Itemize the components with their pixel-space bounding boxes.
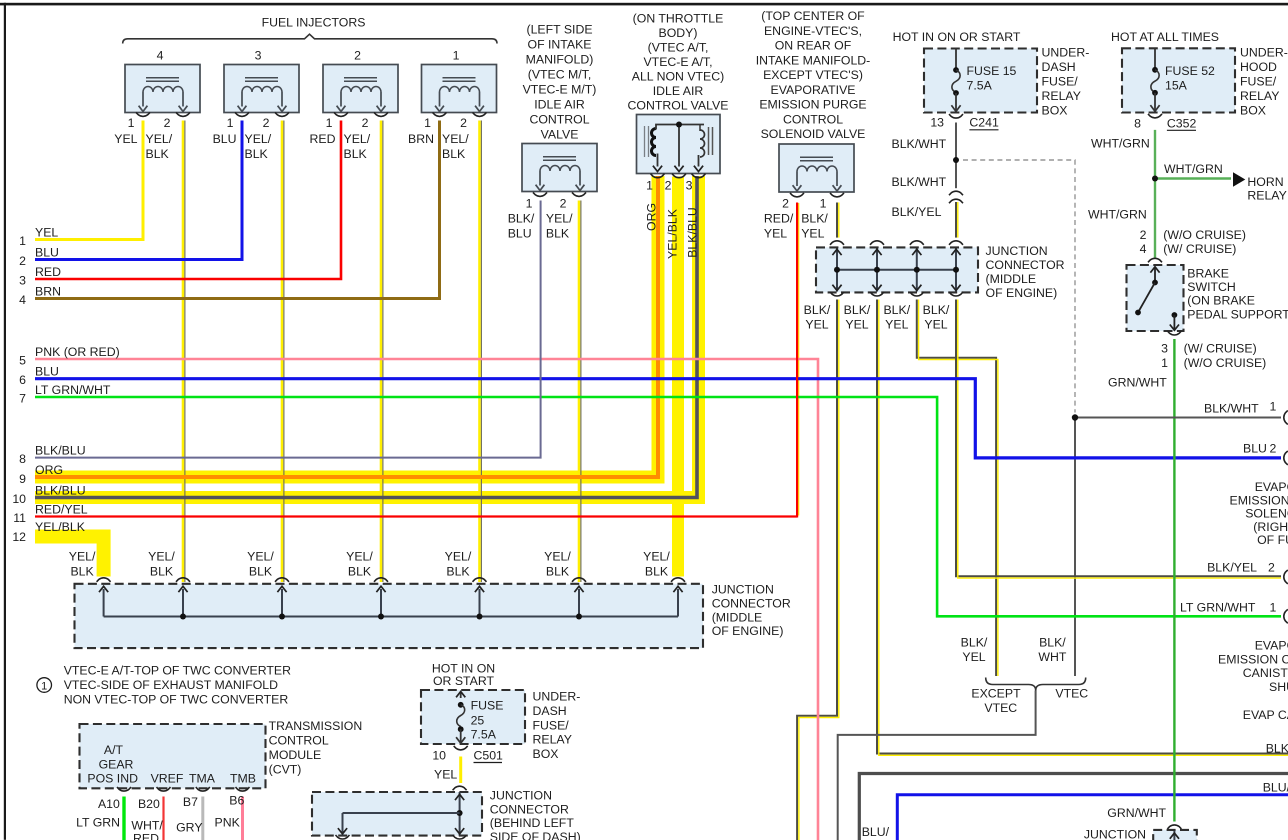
svg-text:NON VTEC-TOP OF TWC CONVERTER: NON VTEC-TOP OF TWC CONVERTER xyxy=(64,693,289,707)
svg-text:EXCEPT VTEC'S): EXCEPT VTEC'S) xyxy=(763,68,863,82)
svg-text:(W/ CRUISE): (W/ CRUISE) xyxy=(1163,242,1236,256)
svg-text:C501: C501 xyxy=(474,749,504,763)
svg-text:C241: C241 xyxy=(969,116,999,130)
svg-text:LT GRN/WHT: LT GRN/WHT xyxy=(35,383,111,397)
svg-text:YEL/: YEL/ xyxy=(146,132,173,146)
svg-text:(VTEC M/T,: (VTEC M/T, xyxy=(528,68,592,82)
svg-text:RELAY: RELAY xyxy=(1247,189,1286,203)
svg-text:YEL/BLK: YEL/BLK xyxy=(666,208,680,259)
svg-text:2: 2 xyxy=(263,116,270,130)
svg-text:DASH: DASH xyxy=(533,704,567,718)
svg-text:IDLE AIR: IDLE AIR xyxy=(534,98,585,112)
svg-text:FUSE 52: FUSE 52 xyxy=(1165,64,1215,78)
svg-text:JUNCTION: JUNCTION xyxy=(490,789,552,803)
svg-text:1: 1 xyxy=(41,680,47,692)
svg-text:EMISSION PURGE: EMISSION PURGE xyxy=(759,98,866,112)
svg-text:BRN: BRN xyxy=(35,284,61,298)
svg-text:7.5A: 7.5A xyxy=(471,728,497,742)
svg-text:BLK: BLK xyxy=(249,565,273,579)
svg-text:A/T: A/T xyxy=(104,743,124,757)
svg-text:POS IND: POS IND xyxy=(87,772,138,786)
svg-text:PEDAL SUPPORT): PEDAL SUPPORT) xyxy=(1187,307,1288,321)
svg-text:VTEC-E M/T): VTEC-E M/T) xyxy=(523,83,597,97)
svg-text:(RIGHT SID: (RIGHT SID xyxy=(1253,520,1288,534)
svg-text:WHT/GRN: WHT/GRN xyxy=(1164,162,1223,176)
svg-text:RED/: RED/ xyxy=(764,212,794,226)
svg-text:4: 4 xyxy=(1140,242,1147,256)
svg-text:1: 1 xyxy=(453,49,460,63)
svg-text:1: 1 xyxy=(128,116,135,130)
svg-text:FUSE: FUSE xyxy=(471,699,504,713)
svg-text:(MIDDLE: (MIDDLE xyxy=(712,610,763,624)
svg-text:11: 11 xyxy=(13,511,26,525)
svg-text:YEL/: YEL/ xyxy=(546,212,573,226)
svg-text:VTEC-E A/T,: VTEC-E A/T, xyxy=(643,55,712,69)
svg-text:BRN: BRN xyxy=(408,132,434,146)
svg-text:10: 10 xyxy=(12,492,26,506)
svg-text:(ON BRAKE: (ON BRAKE xyxy=(1187,294,1255,308)
svg-text:UNDER-: UNDER- xyxy=(533,690,581,704)
svg-text:13: 13 xyxy=(930,116,944,130)
svg-text:10: 10 xyxy=(432,749,446,763)
svg-text:BLU: BLU xyxy=(508,227,532,241)
svg-text:(BEHIND LEFT: (BEHIND LEFT xyxy=(490,816,575,830)
svg-text:YEL/: YEL/ xyxy=(148,550,175,564)
svg-text:1: 1 xyxy=(526,197,533,211)
svg-text:4: 4 xyxy=(19,293,26,307)
svg-text:EMISSION CONT: EMISSION CONT xyxy=(1218,652,1288,666)
svg-text:B7: B7 xyxy=(183,795,198,809)
svg-text:EVAPORATI: EVAPORATI xyxy=(1255,639,1288,653)
svg-text:WHT/GRN: WHT/GRN xyxy=(1091,137,1150,151)
svg-text:(W/O CRUISE): (W/O CRUISE) xyxy=(1184,356,1267,370)
svg-text:UNDER-: UNDER- xyxy=(1042,46,1090,60)
svg-text:SOLENOID V: SOLENOID V xyxy=(1245,507,1288,521)
svg-text:OF FUEL T: OF FUEL T xyxy=(1257,533,1288,547)
svg-text:4: 4 xyxy=(157,49,164,63)
svg-text:2: 2 xyxy=(782,197,789,211)
svg-text:CONNECTOR: CONNECTOR xyxy=(490,802,569,816)
svg-text:VTEC: VTEC xyxy=(1055,687,1088,701)
svg-text:EMISSION PUR: EMISSION PUR xyxy=(1230,493,1288,507)
svg-text:OR START: OR START xyxy=(433,674,495,688)
svg-text:BLK/YEL: BLK/YEL xyxy=(1207,561,1257,575)
svg-text:GRN/WHT: GRN/WHT xyxy=(1108,376,1167,390)
svg-text:YEL: YEL xyxy=(801,227,824,241)
svg-text:BLU: BLU xyxy=(1243,441,1267,455)
svg-text:3: 3 xyxy=(686,178,693,192)
svg-text:YEL/: YEL/ xyxy=(245,132,272,146)
svg-text:CONTROL: CONTROL xyxy=(269,734,329,748)
svg-text:BLK/YEL: BLK/YEL xyxy=(892,205,942,219)
svg-text:INTAKE MANIFOLD-: INTAKE MANIFOLD- xyxy=(756,53,871,67)
svg-text:VALVE: VALVE xyxy=(541,128,579,142)
svg-text:YEL/: YEL/ xyxy=(643,550,670,564)
svg-text:RED/YEL: RED/YEL xyxy=(35,502,88,516)
svg-text:BRAKE: BRAKE xyxy=(1187,267,1229,281)
svg-text:1: 1 xyxy=(1270,400,1277,414)
svg-text:YEL/: YEL/ xyxy=(442,132,469,146)
svg-text:CONNECTOR: CONNECTOR xyxy=(712,596,791,610)
svg-text:BLU: BLU xyxy=(35,245,59,259)
svg-text:MODULE: MODULE xyxy=(269,748,322,762)
svg-text:VTEC-E A/T-TOP OF TWC CONVERTE: VTEC-E A/T-TOP OF TWC CONVERTER xyxy=(64,664,291,678)
svg-text:B20: B20 xyxy=(138,797,160,811)
svg-text:BLK/BLU: BLK/BLU xyxy=(35,483,86,497)
svg-text:ORG: ORG xyxy=(35,463,63,477)
svg-text:HOOD: HOOD xyxy=(1240,60,1277,74)
svg-text:WHT/: WHT/ xyxy=(131,819,163,833)
svg-text:YEL: YEL xyxy=(35,225,58,239)
svg-text:FUSE/: FUSE/ xyxy=(533,718,570,732)
svg-text:LT GRN/WHT: LT GRN/WHT xyxy=(1180,601,1256,615)
svg-text:BLU: BLU xyxy=(35,365,59,379)
svg-text:BOX: BOX xyxy=(1240,103,1266,117)
svg-text:2: 2 xyxy=(665,178,672,192)
svg-text:JUNCTION: JUNCTION xyxy=(712,583,774,597)
svg-text:BLK: BLK xyxy=(645,565,669,579)
svg-text:BLK/YEL: BLK/YEL xyxy=(1266,742,1288,756)
svg-text:(W/O CRUISE): (W/O CRUISE) xyxy=(1163,228,1246,242)
svg-text:YEL: YEL xyxy=(764,227,787,241)
svg-text:BLK: BLK xyxy=(442,147,466,161)
svg-text:EVAPORATIVE: EVAPORATIVE xyxy=(1255,480,1288,494)
svg-text:8: 8 xyxy=(1134,117,1141,131)
svg-text:15A: 15A xyxy=(1165,79,1188,93)
svg-text:2: 2 xyxy=(362,116,369,130)
svg-text:FUSE/: FUSE/ xyxy=(1240,75,1277,89)
svg-text:ORG: ORG xyxy=(645,203,659,231)
svg-text:BLK/: BLK/ xyxy=(508,212,535,226)
svg-text:BLK/WHT: BLK/WHT xyxy=(1204,401,1259,415)
svg-text:1: 1 xyxy=(1161,356,1168,370)
svg-text:BLK: BLK xyxy=(348,565,372,579)
svg-text:3: 3 xyxy=(255,49,262,63)
svg-text:6: 6 xyxy=(19,373,26,387)
svg-text:2: 2 xyxy=(1140,228,1147,242)
svg-text:7: 7 xyxy=(19,392,26,406)
svg-text:3: 3 xyxy=(19,274,26,288)
svg-text:FUSE 15: FUSE 15 xyxy=(967,64,1017,78)
svg-text:PNK (OR RED): PNK (OR RED) xyxy=(35,345,120,359)
svg-text:7.5A: 7.5A xyxy=(967,79,993,93)
svg-text:2: 2 xyxy=(19,254,26,268)
svg-text:A10: A10 xyxy=(98,797,120,811)
svg-text:3: 3 xyxy=(1161,342,1168,356)
svg-text:RED: RED xyxy=(310,132,336,146)
svg-text:(ON THROTTLE: (ON THROTTLE xyxy=(633,12,724,26)
svg-text:BLU: BLU xyxy=(213,132,237,146)
svg-text:OF ENGINE): OF ENGINE) xyxy=(986,286,1058,300)
svg-text:CONTROL VALVE: CONTROL VALVE xyxy=(628,99,729,113)
svg-text:1: 1 xyxy=(227,116,234,130)
svg-text:25: 25 xyxy=(471,714,485,728)
svg-text:BLK: BLK xyxy=(546,227,570,241)
svg-text:YEL: YEL xyxy=(845,318,868,332)
svg-text:12: 12 xyxy=(12,530,26,544)
svg-text:1: 1 xyxy=(19,234,26,248)
svg-text:YEL/: YEL/ xyxy=(69,550,96,564)
svg-text:IDLE AIR: IDLE AIR xyxy=(653,84,704,98)
svg-text:OF ENGINE): OF ENGINE) xyxy=(712,624,784,638)
svg-text:LT GRN: LT GRN xyxy=(76,815,120,829)
svg-text:8: 8 xyxy=(19,452,26,466)
svg-text:DASH: DASH xyxy=(1042,60,1076,74)
svg-text:(CVT): (CVT) xyxy=(269,763,302,777)
svg-text:BLK/: BLK/ xyxy=(844,303,871,317)
svg-text:BLU/WHT: BLU/WHT xyxy=(1263,780,1288,794)
svg-text:YEL/: YEL/ xyxy=(544,550,571,564)
svg-text:2: 2 xyxy=(164,116,171,130)
svg-text:BLK/BLU: BLK/BLU xyxy=(35,443,86,457)
svg-text:WHT: WHT xyxy=(1038,650,1066,664)
svg-text:(VTEC A/T,: (VTEC A/T, xyxy=(648,41,709,55)
svg-text:YEL/: YEL/ xyxy=(445,550,472,564)
svg-text:UNDER-: UNDER- xyxy=(1240,46,1288,60)
svg-text:BLK: BLK xyxy=(146,147,170,161)
svg-text:1: 1 xyxy=(646,178,653,192)
svg-text:C352: C352 xyxy=(1167,117,1197,131)
svg-text:(LEFT SIDE: (LEFT SIDE xyxy=(526,23,592,37)
svg-text:SOLENOID VALVE: SOLENOID VALVE xyxy=(761,127,866,141)
svg-text:BLK: BLK xyxy=(150,565,174,579)
svg-text:BLK/: BLK/ xyxy=(804,303,831,317)
svg-text:GRY: GRY xyxy=(176,820,202,834)
svg-text:2: 2 xyxy=(560,197,567,211)
svg-text:ENGINE-VTEC'S,: ENGINE-VTEC'S, xyxy=(764,24,862,38)
svg-text:FUEL INJECTORS: FUEL INJECTORS xyxy=(262,16,366,30)
svg-text:JUNCTION: JUNCTION xyxy=(986,244,1048,258)
svg-text:1: 1 xyxy=(820,197,827,211)
svg-text:VREF: VREF xyxy=(151,772,184,786)
svg-text:(MIDDLE: (MIDDLE xyxy=(986,272,1037,286)
svg-text:BLK: BLK xyxy=(446,565,470,579)
svg-text:BLK/: BLK/ xyxy=(961,636,988,650)
svg-text:VTEC-SIDE OF EXHAUST MANIFOLD: VTEC-SIDE OF EXHAUST MANIFOLD xyxy=(64,678,278,692)
svg-text:B6: B6 xyxy=(229,793,244,807)
svg-text:TMB: TMB xyxy=(230,772,256,786)
svg-text:2: 2 xyxy=(460,116,467,130)
svg-text:RELAY: RELAY xyxy=(533,733,572,747)
svg-text:YEL: YEL xyxy=(962,650,985,664)
svg-text:RELAY: RELAY xyxy=(1240,89,1279,103)
svg-text:1: 1 xyxy=(326,116,333,130)
svg-text:YEL/: YEL/ xyxy=(344,132,371,146)
svg-text:2: 2 xyxy=(354,49,361,63)
svg-text:YEL: YEL xyxy=(924,318,947,332)
svg-text:ON REAR OF: ON REAR OF xyxy=(775,39,852,53)
svg-text:FUSE/: FUSE/ xyxy=(1042,75,1079,89)
svg-text:BLK/WHT: BLK/WHT xyxy=(892,175,947,189)
svg-text:SHUT V: SHUT V xyxy=(1269,680,1288,694)
svg-text:TMA: TMA xyxy=(189,772,216,786)
svg-text:9: 9 xyxy=(19,472,26,486)
svg-text:MANIFOLD): MANIFOLD) xyxy=(526,53,594,67)
svg-text:YEL: YEL xyxy=(114,132,137,146)
svg-text:GEAR: GEAR xyxy=(99,758,134,772)
svg-text:(TOP CENTER OF: (TOP CENTER OF xyxy=(761,9,865,23)
svg-text:EXCEPT: EXCEPT xyxy=(971,687,1021,701)
svg-text:1: 1 xyxy=(424,116,431,130)
svg-text:CONTROL: CONTROL xyxy=(529,113,589,127)
svg-text:EVAPORATIVE: EVAPORATIVE xyxy=(771,83,856,97)
svg-text:VTEC: VTEC xyxy=(984,701,1017,715)
svg-text:SIDE OF DASH): SIDE OF DASH) xyxy=(490,830,581,840)
svg-text:ALL NON VTEC): ALL NON VTEC) xyxy=(632,70,724,84)
svg-text:GRN/WHT: GRN/WHT xyxy=(1107,806,1166,820)
svg-text:SWITCH: SWITCH xyxy=(1187,280,1236,294)
svg-text:1: 1 xyxy=(1270,601,1277,615)
svg-text:5: 5 xyxy=(19,354,26,368)
svg-text:BLK/WHT: BLK/WHT xyxy=(892,137,947,151)
svg-text:YEL: YEL xyxy=(805,318,828,332)
svg-text:BLK: BLK xyxy=(344,147,368,161)
svg-text:BLK: BLK xyxy=(245,147,269,161)
svg-text:BLK: BLK xyxy=(546,565,570,579)
svg-text:CANISTER: CANISTER xyxy=(1243,666,1288,680)
svg-text:PNK: PNK xyxy=(215,815,241,829)
svg-text:HOT IN ON OR START: HOT IN ON OR START xyxy=(893,30,1021,44)
svg-text:BOX: BOX xyxy=(533,747,559,761)
svg-text:CONNECTOR: CONNECTOR xyxy=(986,258,1065,272)
svg-text:CONTROL: CONTROL xyxy=(783,112,843,126)
svg-text:HORN: HORN xyxy=(1247,175,1283,189)
svg-text:BLK/BLU: BLK/BLU xyxy=(686,207,700,258)
svg-text:YEL/: YEL/ xyxy=(247,550,274,564)
svg-text:BLK/: BLK/ xyxy=(883,303,910,317)
svg-text:BLK/: BLK/ xyxy=(923,303,950,317)
svg-text:BLK/: BLK/ xyxy=(801,212,828,226)
svg-text:TRANSMISSION: TRANSMISSION xyxy=(269,719,363,733)
svg-text:RED: RED xyxy=(133,832,159,840)
svg-text:RELAY: RELAY xyxy=(1042,89,1081,103)
svg-text:OF INTAKE: OF INTAKE xyxy=(528,38,592,52)
svg-text:WHT/GRN: WHT/GRN xyxy=(1088,207,1147,221)
svg-text:2: 2 xyxy=(1270,441,1277,455)
svg-text:JUNCTION: JUNCTION xyxy=(1084,828,1146,840)
svg-text:HOT AT ALL TIMES: HOT AT ALL TIMES xyxy=(1111,30,1219,44)
svg-text:YEL/BLK: YEL/BLK xyxy=(35,520,86,534)
svg-text:RED: RED xyxy=(35,265,61,279)
svg-text:BLK/: BLK/ xyxy=(1039,636,1066,650)
svg-text:BODY): BODY) xyxy=(659,26,698,40)
svg-text:EVAP CANI: EVAP CANI xyxy=(1243,708,1288,722)
svg-text:BLU/: BLU/ xyxy=(862,825,890,839)
svg-text:YEL: YEL xyxy=(434,768,457,782)
svg-text:YEL/: YEL/ xyxy=(346,550,373,564)
svg-text:BOX: BOX xyxy=(1042,103,1068,117)
svg-text:BLK: BLK xyxy=(70,565,94,579)
svg-text:2: 2 xyxy=(1268,561,1275,575)
svg-text:YEL: YEL xyxy=(885,318,908,332)
svg-text:(W/ CRUISE): (W/ CRUISE) xyxy=(1184,342,1257,356)
